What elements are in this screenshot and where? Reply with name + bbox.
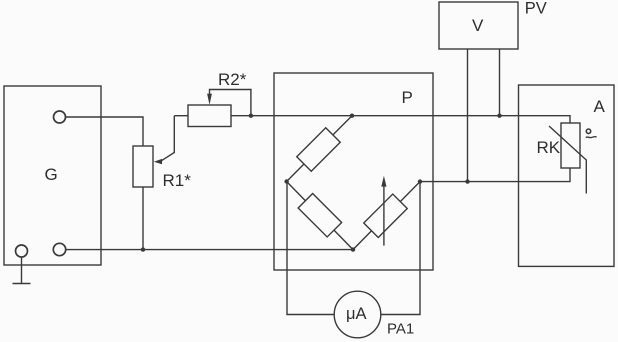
svg-text:P: P (402, 88, 413, 107)
terminal ground of G (16, 245, 28, 257)
wire top rail (231, 116, 570, 123)
wire bridge arm top-left (287, 116, 352, 182)
resistor bridge bottom-left (298, 193, 341, 236)
node R2 output junction (249, 114, 253, 118)
wire V left lead (467, 49, 469, 182)
node bridge left (284, 179, 288, 183)
wire R2 left (174, 115, 188, 117)
svg-text:V: V (472, 16, 484, 35)
t-degree mark of RK (586, 129, 590, 133)
box V (voltmeter PV) (439, 2, 518, 49)
resistor R1 (133, 146, 153, 187)
meter PA1 (334, 291, 381, 338)
node V left junction (465, 179, 469, 183)
resistor bridge top-left (297, 128, 340, 171)
wire R2 wiper (210, 90, 251, 116)
wire bridge arm bottom-right (353, 182, 420, 250)
node R1 bottom junction (141, 247, 145, 251)
wire R1 bottom to bottom rail (142, 187, 144, 250)
svg-text:R2*: R2* (218, 70, 247, 89)
svg-text:PA1: PA1 (387, 321, 414, 338)
wire G top to R1 top (65, 117, 143, 146)
box A (chamber) (519, 85, 615, 266)
svg-text:G: G (45, 165, 58, 184)
box P (bridge) (274, 73, 433, 270)
svg-text:R1*: R1* (163, 171, 192, 190)
wire return line (right node to RK bottom) (420, 168, 570, 182)
resistor R2 (188, 105, 231, 127)
wire meter left branch (287, 182, 334, 315)
svg-text:RK: RK (537, 138, 561, 157)
svg-text:A: A (594, 97, 606, 116)
ground (13, 257, 31, 284)
wire V right lead (499, 49, 501, 116)
terminal top of G (54, 111, 66, 123)
box G (generator) (4, 86, 101, 265)
wire RK diagonal stroke (549, 126, 586, 194)
arrowhead R1 wiper (154, 159, 162, 164)
resistor bridge bottom-right (adjustable) (364, 194, 407, 237)
arrowhead adjustable resistor (381, 176, 386, 187)
node bridge bottom (351, 247, 355, 251)
svg-text:μA: μA (346, 305, 367, 323)
terminal bottom-right of G (53, 243, 65, 255)
node bridge right (418, 179, 422, 183)
svg-text:PV: PV (525, 0, 547, 17)
wire arrow shaft of adjustable resistor (383, 185, 385, 246)
wire R1 wiper to R2 left (161, 116, 175, 162)
node bridge top (350, 114, 354, 118)
wire bridge arm bottom-left (287, 182, 353, 250)
node V right junction (497, 114, 501, 118)
wire meter right branch (381, 182, 420, 315)
arrowhead R2 wiper (207, 94, 212, 105)
wire bottom rail (66, 249, 353, 251)
resistor RK (thermistor) (561, 123, 580, 168)
